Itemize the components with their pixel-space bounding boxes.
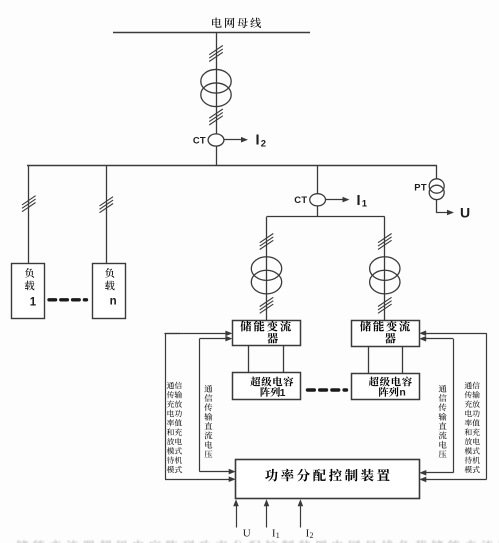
arrow: right inner comm to controller (425, 472, 453, 474)
label 负载 1 (25, 268, 35, 290)
svg-text:CT: CT (294, 194, 307, 205)
svg-text:I: I (357, 193, 361, 209)
svg-text:1: 1 (276, 531, 280, 540)
arrow: right outer comm to right converter (425, 333, 486, 335)
arrow: left inner comm to left converter (200, 338, 227, 340)
box: load n 负载n (93, 264, 126, 319)
svg-text:PT: PT (414, 182, 427, 193)
wire: PT tap from bus (436, 165, 438, 213)
arrow: I2 input to controller (300, 505, 302, 527)
wire: right converter branch (384, 217, 386, 320)
arrow I2 measurement (225, 139, 243, 141)
ellipsis dots between loads (49, 298, 87, 301)
wire break (right branch lower) (378, 297, 392, 306)
note: left inner comm text 通信传输直流电压 (204, 385, 212, 458)
svg-text:2: 2 (310, 531, 314, 540)
svg-text:U: U (460, 204, 470, 220)
wire break (load-n feeder) (100, 197, 114, 206)
wire break (upper, main feeder) (209, 46, 223, 55)
label 负载 n (105, 268, 115, 290)
wire: left DC link B (283, 346, 285, 373)
svg-text:n: n (399, 387, 405, 399)
wire: left outer comm (vertical) (165, 333, 167, 479)
CT (storage feeder) (310, 194, 326, 206)
wire: right DC link B (402, 346, 404, 373)
transformer T2 (left storage branch) (251, 257, 281, 281)
svg-text:U: U (243, 528, 251, 540)
note: left outer comm text 通信传输充放电功率值和充放电模式待机模式 (167, 382, 182, 473)
box: left converter 储能变流器 (233, 321, 301, 346)
wire break (left branch lower) (260, 297, 274, 306)
wire: left inner comm (vertical) (199, 339, 201, 472)
wire: main vertical from grid bus to LV bus (216, 32, 218, 165)
svg-text:I: I (256, 133, 260, 149)
svg-text:1: 1 (280, 387, 286, 399)
wire break (load-1 feeder) (22, 196, 36, 205)
box: supercap array 1 超级电容阵列1 (233, 373, 301, 400)
wire: branch tee (267, 216, 385, 218)
bus: LV busbar (27, 165, 437, 167)
wire: storage feeder drop (317, 165, 319, 217)
label 超级电容阵列1 (250, 377, 293, 387)
svg-text:CT: CT (193, 134, 206, 145)
wire break (lower, main feeder) (209, 109, 223, 118)
arrow: I1 input to controller (266, 505, 268, 527)
svg-text:2: 2 (261, 138, 266, 149)
svg-text:n: n (110, 296, 117, 308)
wire break (right branch upper) (378, 234, 392, 243)
bus: grid busbar 电网母线 (113, 32, 310, 34)
ellipsis dots between supercap arrays (308, 388, 347, 391)
box: supercap array n 超级电容阵列n (352, 374, 420, 400)
wire: left converter branch (266, 217, 268, 320)
label 功率分配控制装置 (265, 469, 390, 482)
label 电网母线 (212, 18, 261, 28)
wire break (left branch upper) (260, 234, 274, 243)
wire: left DC link A (248, 346, 250, 373)
arrow: left outer comm to controller (165, 479, 230, 481)
transformer T1 (grid transformer) (201, 69, 231, 93)
arrow I1 measurement (326, 199, 344, 201)
box: controller 功率分配控制装置 (236, 460, 420, 499)
note: right inner comm text 通信传输直流电压 (439, 385, 447, 458)
label 储能变流器 (left) (240, 321, 290, 332)
PT (potential transformer) (429, 179, 444, 193)
wire: right DC link A (368, 346, 370, 373)
wire: right outer comm (vertical) (486, 333, 488, 479)
transformer T3 (right storage branch) (370, 257, 400, 281)
box: right converter 储能变流器 (352, 321, 420, 347)
CT (current transformer, main feeder) (208, 134, 224, 146)
svg-text:1: 1 (30, 297, 37, 309)
wire: right inner comm (vertical) (453, 339, 455, 473)
box: load 1 负载1 (12, 264, 45, 319)
label 超级电容阵列n (369, 377, 412, 387)
note: cropped caption (faint) (16, 540, 499, 543)
arrow: right inner comm to right converter (425, 338, 453, 340)
svg-text:1: 1 (362, 199, 368, 210)
arrow: U input to controller (236, 505, 238, 527)
arrow: left outer comm to left converter (165, 333, 226, 335)
wire: load-1 feeder (28, 165, 30, 263)
note: right outer comm text 通信传输充放电功率值和充放电模式待机模式 (465, 382, 480, 473)
arrow U measurement (436, 212, 448, 214)
arrow: right outer comm to controller (425, 479, 486, 481)
arrow: left inner comm to controller (200, 471, 230, 473)
wire: load-n feeder (106, 165, 108, 263)
label 储能变流器 (right) (360, 321, 410, 332)
